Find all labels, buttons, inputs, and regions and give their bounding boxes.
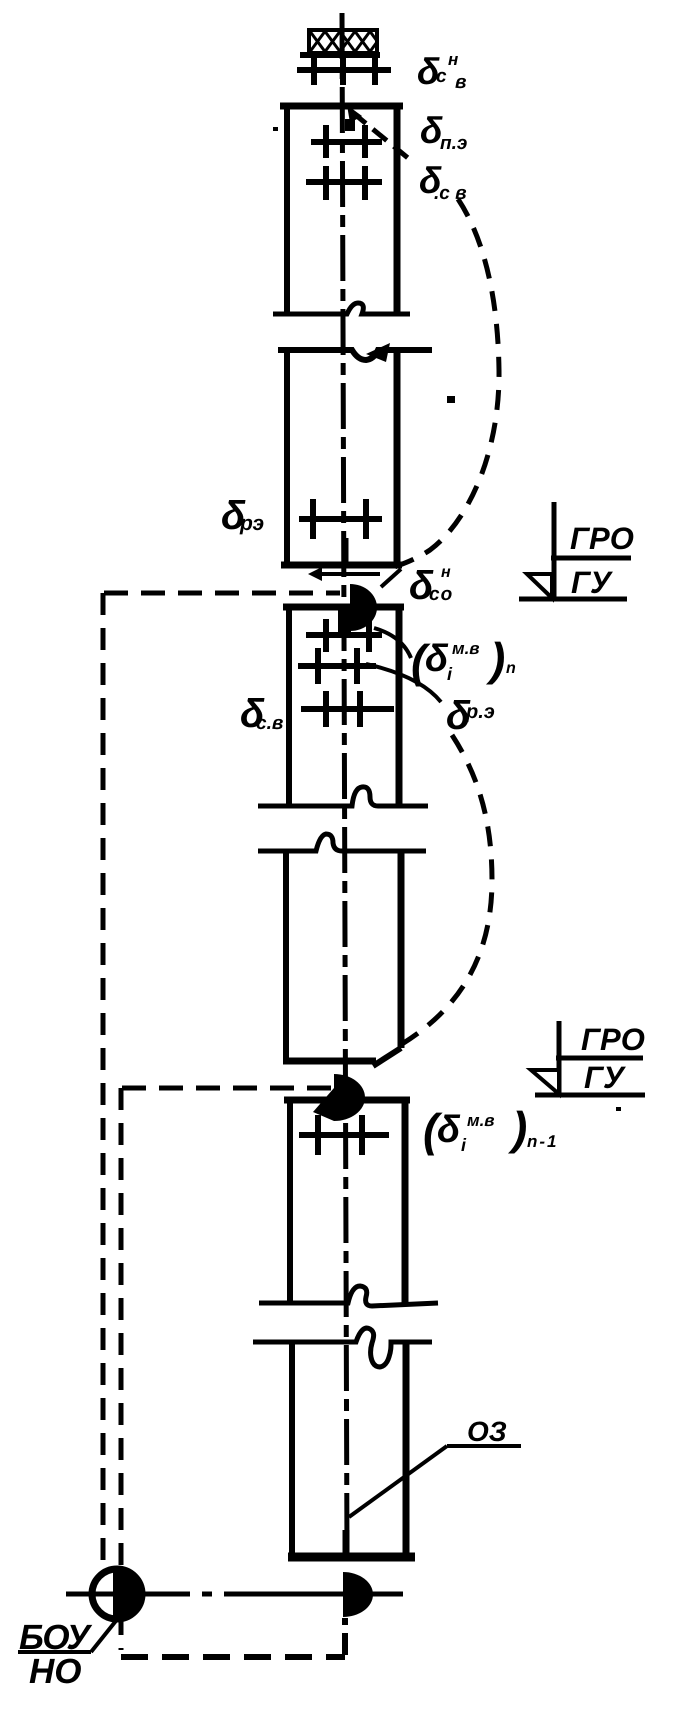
- svg-text:n-1: n-1: [527, 1132, 559, 1151]
- svg-text:ГУ: ГУ: [584, 1060, 626, 1095]
- svg-text:ГРО: ГРО: [570, 521, 634, 556]
- svg-text:δ: δ: [425, 638, 449, 680]
- svg-text:рэ: рэ: [239, 512, 264, 535]
- svg-text:ОЗ: ОЗ: [467, 1416, 507, 1447]
- svg-text:.с в: .с в: [434, 183, 467, 204]
- svg-text:р.э: р.э: [465, 701, 495, 723]
- svg-text:п.э: п.э: [440, 133, 467, 154]
- svg-text:н: н: [441, 564, 451, 581]
- svg-text:с: с: [436, 66, 447, 87]
- svg-text:м.в: м.в: [467, 1111, 495, 1130]
- svg-text:со: со: [429, 584, 453, 605]
- svg-text:δ: δ: [437, 1109, 461, 1151]
- svg-text:n: n: [506, 660, 516, 677]
- svg-text:в: в: [455, 72, 466, 93]
- svg-text:ГУ: ГУ: [571, 565, 613, 600]
- svg-text:н: н: [448, 50, 458, 69]
- svg-text:м.в: м.в: [452, 639, 480, 658]
- svg-text:ГРО: ГРО: [581, 1022, 645, 1057]
- svg-text:с.в: с.в: [256, 713, 283, 734]
- svg-text:НО: НО: [29, 1652, 82, 1691]
